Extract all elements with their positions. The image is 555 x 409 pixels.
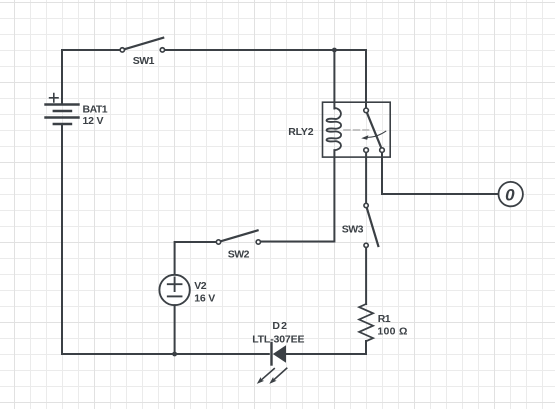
svg-text:RLY2: RLY2 (288, 126, 313, 138)
svg-text:16 V: 16 V (194, 292, 215, 304)
svg-text:SW3: SW3 (342, 223, 364, 235)
svg-text:0: 0 (505, 185, 515, 204)
svg-text:BAT1: BAT1 (83, 104, 108, 116)
svg-text:R1: R1 (378, 313, 391, 325)
svg-text:100 Ω: 100 Ω (377, 326, 407, 338)
svg-text:V2: V2 (194, 280, 207, 292)
svg-text:SW2: SW2 (228, 249, 250, 261)
svg-text:SW1: SW1 (133, 55, 155, 67)
svg-text:12 V: 12 V (83, 115, 104, 127)
svg-text:D2: D2 (272, 320, 288, 332)
svg-text:LTL-307EE: LTL-307EE (252, 334, 304, 346)
